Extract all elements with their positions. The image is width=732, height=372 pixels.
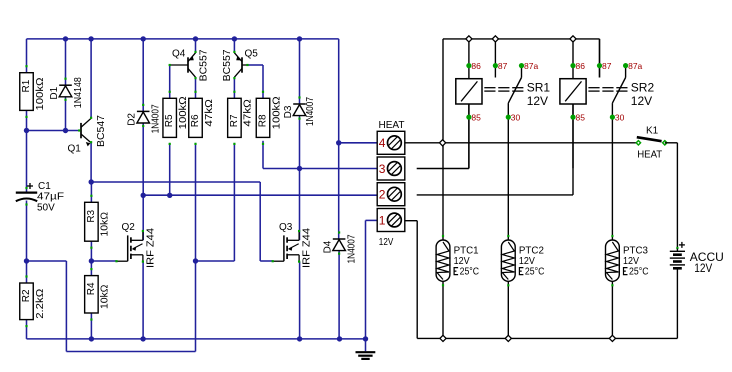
svg-text:100kΩ: 100kΩ <box>177 96 189 129</box>
svg-text:R4: R4 <box>86 282 97 295</box>
svg-text:D3: D3 <box>283 105 294 118</box>
svg-text:BC547: BC547 <box>96 115 107 147</box>
svg-text:D1: D1 <box>49 86 60 99</box>
svg-text:PTC3: PTC3 <box>623 246 648 257</box>
svg-text:BC557: BC557 <box>199 49 210 81</box>
svg-text:Q5: Q5 <box>245 49 259 60</box>
svg-text:Q1: Q1 <box>68 144 82 155</box>
svg-text:1N4007: 1N4007 <box>151 104 162 133</box>
svg-text:30: 30 <box>615 112 625 122</box>
svg-text:HEAT: HEAT <box>379 120 405 131</box>
svg-text:87a: 87a <box>628 61 642 71</box>
svg-text:R5: R5 <box>164 114 175 127</box>
svg-text:D4: D4 <box>323 240 334 253</box>
svg-text:86: 86 <box>471 61 481 71</box>
svg-text:85: 85 <box>471 112 481 122</box>
svg-text:HEAT: HEAT <box>637 149 662 160</box>
svg-text:87: 87 <box>602 61 612 71</box>
svg-text:12V: 12V <box>379 237 394 248</box>
svg-text:IRF Z44: IRF Z44 <box>146 228 157 268</box>
svg-text:100kΩ: 100kΩ <box>270 96 282 129</box>
svg-text:87: 87 <box>498 61 508 71</box>
svg-text:30: 30 <box>511 112 521 122</box>
svg-text:12V: 12V <box>527 94 548 108</box>
svg-text:87a: 87a <box>524 61 538 71</box>
svg-text:47µF: 47µF <box>37 191 64 202</box>
svg-text:1N4007: 1N4007 <box>347 234 358 263</box>
svg-text:R7: R7 <box>229 114 240 127</box>
svg-text:10kΩ: 10kΩ <box>99 284 111 309</box>
svg-text:2.2kΩ: 2.2kΩ <box>34 289 46 319</box>
svg-text:12V: 12V <box>454 256 470 267</box>
svg-text:Q2: Q2 <box>122 222 136 233</box>
svg-text:12V: 12V <box>519 256 535 267</box>
svg-text:PTC1: PTC1 <box>454 246 479 257</box>
svg-text:1: 1 <box>379 213 386 227</box>
svg-text:R1: R1 <box>21 79 32 92</box>
svg-text:BC557: BC557 <box>222 49 233 81</box>
svg-text:Q3: Q3 <box>279 222 293 233</box>
svg-text:2: 2 <box>379 188 386 202</box>
svg-text:R8: R8 <box>257 114 268 127</box>
svg-text:12V: 12V <box>631 94 652 108</box>
svg-text:12V: 12V <box>623 256 639 267</box>
svg-text:25°C: 25°C <box>460 267 480 278</box>
svg-text:R3: R3 <box>86 209 97 222</box>
svg-text:SR1: SR1 <box>527 81 551 95</box>
svg-text:R2: R2 <box>21 289 32 302</box>
svg-text:47kΩ: 47kΩ <box>203 99 215 127</box>
svg-text:25°C: 25°C <box>525 267 545 278</box>
svg-text:1N4007: 1N4007 <box>305 97 316 126</box>
svg-text:K1: K1 <box>646 126 659 137</box>
svg-text:85: 85 <box>576 112 586 122</box>
svg-text:50V: 50V <box>37 203 55 214</box>
svg-text:Q4: Q4 <box>172 49 186 60</box>
svg-text:PTC2: PTC2 <box>519 246 544 257</box>
svg-text:1N4148: 1N4148 <box>73 77 84 108</box>
svg-text:D2: D2 <box>127 113 138 126</box>
svg-text:3: 3 <box>379 162 386 176</box>
svg-text:86: 86 <box>576 61 586 71</box>
svg-text:IRF Z44: IRF Z44 <box>302 228 313 268</box>
svg-text:4: 4 <box>379 136 386 150</box>
svg-text:10kΩ: 10kΩ <box>99 212 111 237</box>
svg-text:47kΩ: 47kΩ <box>242 99 254 127</box>
svg-text:100kΩ: 100kΩ <box>34 77 46 110</box>
svg-text:25°C: 25°C <box>629 267 649 278</box>
svg-text:C1: C1 <box>38 181 51 192</box>
svg-text:R6: R6 <box>190 114 201 127</box>
svg-text:SR2: SR2 <box>631 81 655 95</box>
svg-text:12V: 12V <box>694 261 712 275</box>
